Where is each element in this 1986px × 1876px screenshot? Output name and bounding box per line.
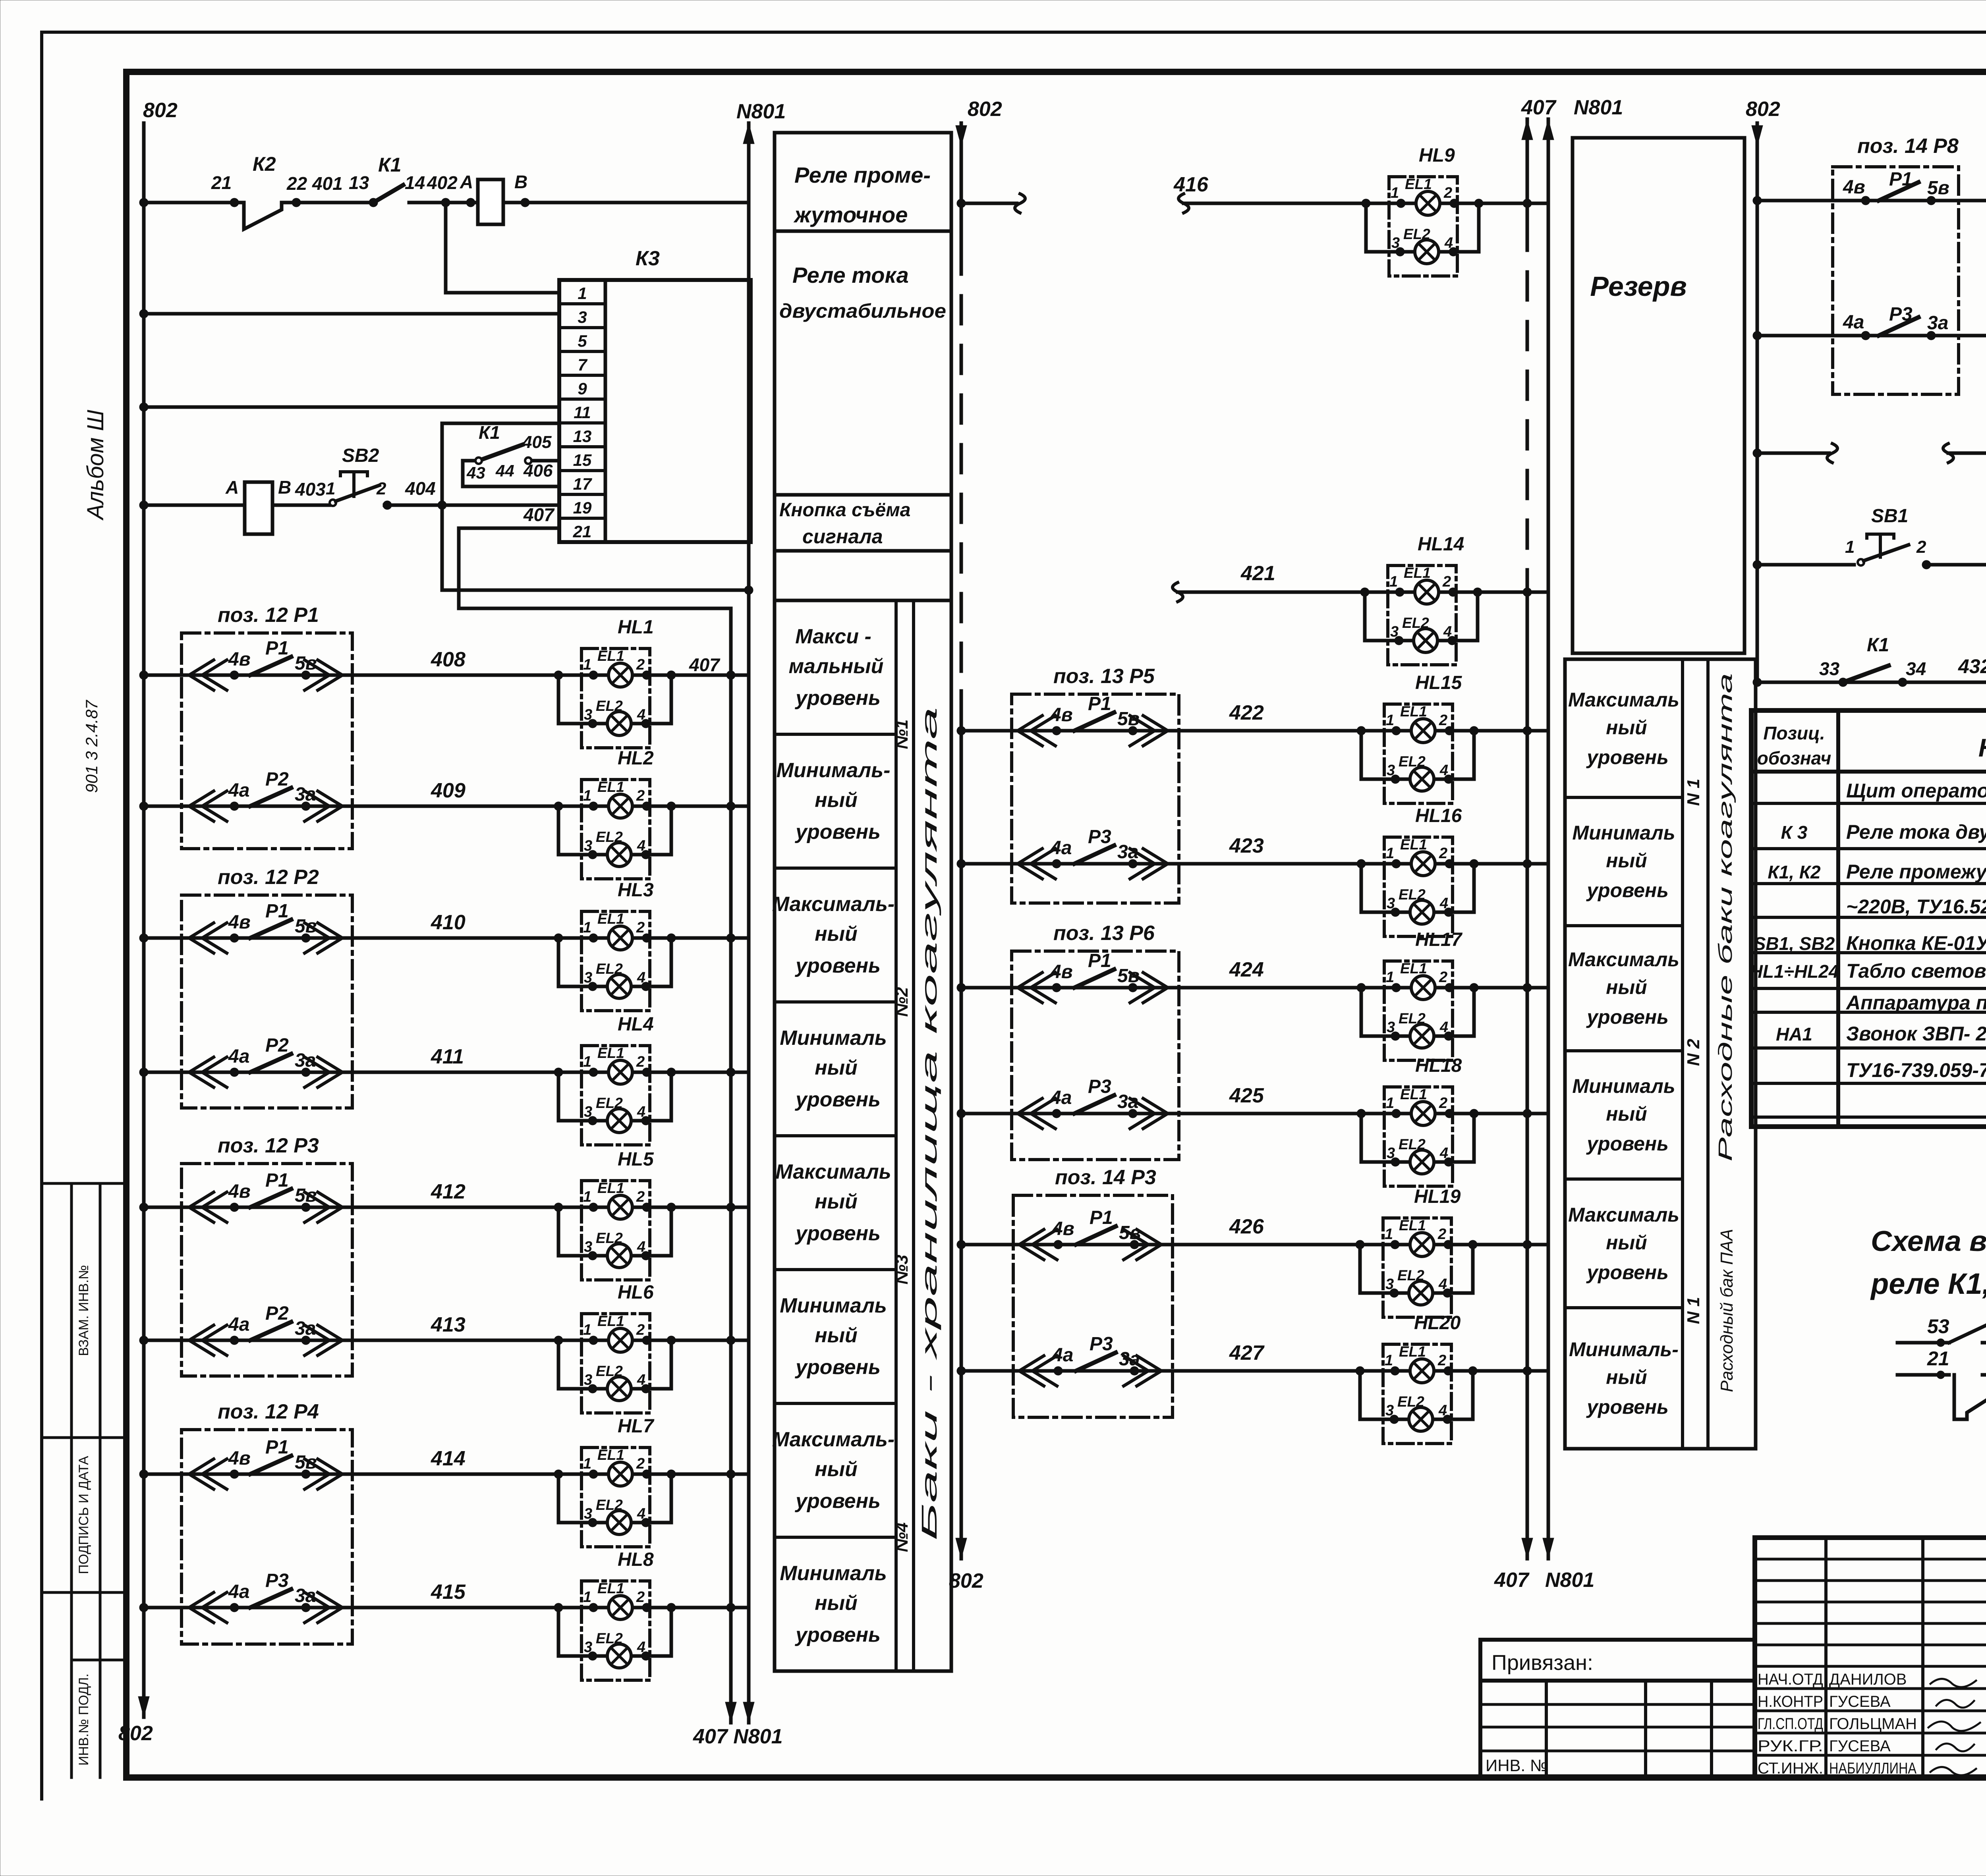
- svg-text:5в: 5в: [295, 1452, 317, 1473]
- svg-text:405: 405: [522, 432, 552, 452]
- svg-text:HL2: HL2: [618, 748, 654, 769]
- svg-text:поз. 14 Р8: поз. 14 Р8: [1857, 135, 1959, 158]
- svg-text:5в: 5в: [1117, 708, 1140, 730]
- svg-text:EL2: EL2: [1403, 226, 1430, 242]
- svg-text:4: 4: [637, 838, 645, 854]
- contact K1 13-14: [373, 185, 403, 203]
- lamp panel HL3: [582, 911, 650, 1011]
- svg-text:EL1: EL1: [1405, 176, 1432, 192]
- svg-text:4в: 4в: [228, 1181, 251, 1202]
- svg-text:2: 2: [636, 1189, 645, 1205]
- svg-text:43: 43: [466, 463, 485, 482]
- svg-text:ДАНИЛОВ: ДАНИЛОВ: [1829, 1671, 1907, 1688]
- svg-text:Реле проме-: Реле проме-: [794, 162, 931, 187]
- svg-text:К1: К1: [479, 422, 500, 443]
- svg-text:4: 4: [637, 1239, 645, 1255]
- svg-text:3: 3: [584, 706, 592, 723]
- svg-text:Минималь: Минималь: [1572, 1075, 1675, 1097]
- svg-text:425: 425: [1229, 1084, 1264, 1107]
- svg-text:EL2: EL2: [596, 1497, 623, 1513]
- relay contact Р1 on wire 414: [189, 1459, 214, 1489]
- svg-text:уровень: уровень: [794, 820, 881, 843]
- svg-text:А: А: [225, 477, 239, 498]
- contact group box поз. 12 Р1: [182, 633, 352, 849]
- svg-text:EL2: EL2: [596, 1630, 623, 1646]
- svg-text:427: 427: [1229, 1341, 1265, 1365]
- svg-text:426: 426: [1229, 1215, 1264, 1238]
- svg-text:21: 21: [1927, 1347, 1949, 1370]
- svg-text:415: 415: [431, 1581, 466, 1604]
- wire 415: [144, 1606, 582, 1610]
- svg-text:Максималь-: Максималь-: [772, 893, 894, 916]
- svg-text:802: 802: [118, 1722, 153, 1745]
- svg-text:Р2: Р2: [265, 769, 289, 790]
- lamp panel HL18: [1384, 1087, 1453, 1186]
- contact K1 43-44: [463, 459, 479, 463]
- wire 409: [144, 805, 582, 808]
- svg-text:уровень: уровень: [794, 1623, 881, 1646]
- svg-text:7: 7: [578, 355, 587, 374]
- wire 408: [144, 674, 582, 677]
- wire 431: [1757, 563, 1854, 567]
- svg-text:3а: 3а: [295, 784, 316, 805]
- svg-text:уровень: уровень: [794, 1356, 881, 1379]
- svg-text:HL15: HL15: [1415, 672, 1462, 693]
- svg-text:уровень: уровень: [1586, 1261, 1669, 1283]
- svg-text:Кнопка КЕ-01У3 исп. 2 ТУ16.526: Кнопка КЕ-01У3 исп. 2 ТУ16.526.407- 79: [1846, 932, 1986, 954]
- svg-text:Позиц.: Позиц.: [1763, 723, 1825, 743]
- svg-text:Н.КОНТР: Н.КОНТР: [1758, 1693, 1823, 1710]
- svg-text:3: 3: [1391, 235, 1400, 251]
- svg-text:EL2: EL2: [596, 961, 623, 977]
- svg-text:поз. 14 Р3: поз. 14 Р3: [1055, 1166, 1156, 1189]
- svg-text:Минималь: Минималь: [1572, 822, 1675, 844]
- wire 425: [961, 1112, 1474, 1116]
- svg-text:3: 3: [584, 969, 592, 986]
- outer paper border: [42, 31, 1986, 34]
- svg-text:уровень: уровень: [1586, 746, 1669, 768]
- column level labels (supply tanks): [1565, 659, 1756, 1449]
- svg-text:Р3: Р3: [1088, 1076, 1111, 1097]
- signatures: [1930, 1679, 1976, 1687]
- svg-text:1: 1: [1386, 1095, 1394, 1112]
- svg-text:Табло световое ТСБ-Ш-У3-01ТУ16: Табло световое ТСБ-Ш-У3-01ТУ16.535.424-7…: [1846, 960, 1986, 982]
- svg-text:Р1: Р1: [265, 901, 289, 922]
- svg-text:HL1: HL1: [618, 617, 654, 638]
- svg-text:К1, К2: К1, К2: [1768, 862, 1821, 882]
- svg-text:HL9: HL9: [1419, 145, 1455, 166]
- svg-text:15: 15: [573, 451, 592, 469]
- svg-text:403: 403: [295, 479, 326, 500]
- svg-text:2: 2: [1439, 845, 1447, 862]
- svg-text:432: 432: [1958, 655, 1986, 677]
- svg-text:№4: №4: [892, 1523, 912, 1552]
- svg-text:4: 4: [1444, 235, 1453, 251]
- svg-text:НА1: НА1: [1776, 1024, 1812, 1044]
- svg-text:4: 4: [1438, 1276, 1447, 1293]
- svg-text:К2: К2: [253, 153, 276, 175]
- svg-text:В: В: [514, 172, 527, 192]
- svg-text:ИНВ. №: ИНВ. №: [1486, 1756, 1548, 1775]
- svg-text:Реле промежуточное РПУ2-0642о: Реле промежуточное РПУ2-0642о У3Б: [1846, 861, 1986, 883]
- svg-text:Максималь-: Максималь-: [772, 1428, 894, 1451]
- svg-text:Р3: Р3: [265, 1570, 289, 1591]
- svg-text:3: 3: [1385, 1276, 1394, 1293]
- relay contact Р1 on wire 412: [189, 1192, 214, 1222]
- svg-text:404: 404: [405, 478, 436, 499]
- svg-text:2: 2: [1437, 1226, 1446, 1243]
- svg-text:Расходный бак ПАА: Расходный бак ПАА: [1717, 1229, 1737, 1392]
- wire 413: [144, 1339, 582, 1342]
- svg-text:Наименование: Наименование: [1978, 733, 1986, 762]
- svg-text:3: 3: [1387, 895, 1395, 912]
- svg-text:N801: N801: [736, 100, 786, 123]
- svg-text:РУК.ГР.: РУК.ГР.: [1758, 1737, 1823, 1755]
- node 404 branch: [438, 501, 446, 510]
- svg-text:EL1: EL1: [1400, 960, 1427, 977]
- svg-text:11: 11: [574, 403, 591, 422]
- svg-text:802: 802: [968, 98, 1002, 121]
- svg-text:К1: К1: [378, 154, 402, 176]
- svg-text:Максималь: Максималь: [1568, 1204, 1679, 1226]
- lamp panel HL9: [1389, 177, 1457, 276]
- svg-text:мальный: мальный: [789, 655, 884, 678]
- svg-text:1: 1: [583, 1322, 591, 1338]
- svg-text:уровень: уровень: [1586, 1133, 1669, 1155]
- svg-text:4: 4: [1439, 1019, 1448, 1036]
- wire 430: [1757, 452, 1829, 455]
- svg-text:ВЗАМ. ИНВ.№: ВЗАМ. ИНВ.№: [76, 1265, 91, 1356]
- svg-text:уровень: уровень: [794, 1088, 881, 1111]
- lamp panel HL1: [582, 648, 650, 748]
- svg-text:Схема выводов контактов и обм: Схема выводов контактов и обмоток: [1871, 1226, 1986, 1257]
- svg-text:2: 2: [1439, 969, 1447, 986]
- svg-text:1: 1: [583, 1054, 591, 1070]
- svg-text:EL2: EL2: [596, 1095, 623, 1111]
- svg-text:411: 411: [431, 1045, 464, 1068]
- svg-text:4в: 4в: [1050, 961, 1073, 982]
- svg-text:ный: ный: [1606, 716, 1647, 739]
- svg-text:Максималь: Максималь: [1568, 948, 1679, 971]
- svg-text:34: 34: [1906, 658, 1926, 679]
- svg-text:ный: ный: [815, 1190, 858, 1213]
- svg-text:Кнопка съёма: Кнопка съёма: [779, 500, 910, 521]
- lamp panel HL14: [1388, 566, 1456, 665]
- wire 429: [1757, 334, 1986, 338]
- relay contact Р1 wire 426: [1019, 1229, 1044, 1260]
- svg-text:ный: ный: [1606, 1103, 1647, 1125]
- svg-text:1: 1: [1385, 1352, 1393, 1369]
- svg-text:HL20: HL20: [1414, 1312, 1461, 1334]
- svg-text:уровень: уровень: [794, 1222, 881, 1245]
- coil K1: [478, 179, 503, 224]
- svg-text:HL16: HL16: [1415, 805, 1462, 826]
- svg-text:N801: N801: [1574, 96, 1623, 119]
- svg-text:5: 5: [578, 332, 587, 350]
- contact group box поз. 13 Р6: [1012, 951, 1179, 1160]
- svg-text:EL1: EL1: [1399, 1343, 1426, 1360]
- svg-text:EL2: EL2: [1399, 886, 1426, 903]
- svg-text:53: 53: [1927, 1315, 1949, 1338]
- svg-text:ный: ный: [1606, 849, 1647, 872]
- svg-text:2: 2: [636, 1054, 645, 1070]
- svg-text:HL3: HL3: [618, 880, 654, 901]
- svg-text:поз. 13 Р6: поз. 13 Р6: [1053, 922, 1155, 945]
- svg-text:поз. 12 Р1: поз. 12 Р1: [218, 604, 319, 627]
- svg-text:412: 412: [431, 1180, 466, 1203]
- svg-text:Р1: Р1: [265, 638, 289, 659]
- svg-text:К 3: К 3: [1781, 822, 1808, 843]
- wire rung to K3 pin11: [144, 405, 559, 409]
- contact group box поз.14 Р8: [1833, 167, 1959, 394]
- column level labels (storage tanks): [775, 600, 951, 1671]
- lamp panel HL19: [1383, 1218, 1451, 1317]
- svg-text:407 N801: 407 N801: [693, 1725, 783, 1748]
- svg-text:НАЧ.ОТД: НАЧ.ОТД: [1758, 1671, 1823, 1688]
- svg-text:33: 33: [1819, 658, 1840, 679]
- svg-text:ный: ный: [815, 1592, 858, 1615]
- svg-text:реле К1, К2,: реле К1, К2,: [1870, 1267, 1986, 1300]
- wire 416: [1178, 194, 1189, 213]
- wire 421: [1173, 583, 1183, 602]
- svg-text:3: 3: [584, 1372, 592, 1388]
- svg-text:424: 424: [1229, 958, 1264, 981]
- svg-text:2: 2: [636, 787, 645, 804]
- svg-text:4: 4: [1439, 762, 1448, 779]
- wire 414: [144, 1473, 582, 1476]
- svg-text:2: 2: [1439, 1095, 1447, 1112]
- svg-text:EL1: EL1: [597, 1580, 624, 1596]
- left stamp strip dividers: [70, 1183, 73, 1778]
- svg-text:423: 423: [1229, 834, 1264, 857]
- svg-text:4: 4: [1443, 623, 1452, 640]
- pinout contact 53-54: [1897, 1341, 1949, 1345]
- svg-text:уровень: уровень: [1586, 879, 1669, 901]
- svg-text:Минималь: Минималь: [780, 1562, 887, 1585]
- svg-text:EL1: EL1: [597, 1447, 624, 1463]
- svg-text:1: 1: [583, 656, 591, 673]
- svg-text:EL2: EL2: [596, 1363, 623, 1379]
- svg-text:N 2: N 2: [1684, 1038, 1703, 1066]
- svg-text:407: 407: [1494, 1569, 1530, 1592]
- svg-text:1: 1: [1389, 573, 1398, 590]
- svg-text:408: 408: [431, 648, 466, 671]
- svg-text:~220В, ТУ16.523.331- 78.: ~220В, ТУ16.523.331- 78.: [1846, 896, 1986, 918]
- svg-text:422: 422: [1229, 701, 1264, 724]
- svg-text:1: 1: [1386, 845, 1394, 862]
- svg-text:HL14: HL14: [1418, 534, 1464, 555]
- svg-text:Р1: Р1: [265, 1170, 289, 1191]
- svg-text:2: 2: [636, 656, 645, 673]
- svg-text:двустабильное: двустабильное: [779, 300, 946, 322]
- svg-text:4: 4: [637, 1104, 645, 1120]
- svg-text:поз. 12 Р4: поз. 12 Р4: [218, 1400, 319, 1423]
- svg-text:1: 1: [583, 787, 591, 804]
- svg-text:EL2: EL2: [1402, 615, 1429, 631]
- svg-text:3: 3: [1387, 1145, 1395, 1162]
- svg-text:EL1: EL1: [597, 911, 624, 927]
- wire 423: [961, 862, 1474, 866]
- bus N801 left: [747, 123, 751, 1723]
- relay contact Р3 wire 423: [1018, 849, 1042, 879]
- svg-text:поз. 12 Р2: поз. 12 Р2: [218, 866, 319, 889]
- svg-text:4: 4: [1438, 1402, 1447, 1419]
- svg-text:3а: 3а: [1927, 313, 1948, 334]
- svg-text:13: 13: [349, 172, 369, 193]
- relay contact Р2 on wire 409: [189, 791, 214, 821]
- svg-text:обознач: обознач: [1757, 748, 1831, 768]
- svg-text:N801: N801: [1545, 1569, 1594, 1592]
- column relay descriptions: [775, 133, 951, 600]
- svg-text:3а: 3а: [295, 1050, 316, 1071]
- svg-text:3: 3: [584, 1505, 592, 1522]
- svg-text:4а: 4а: [228, 1314, 249, 1335]
- wire 406 to K3 pin17: [463, 485, 559, 488]
- svg-text:EL2: EL2: [596, 1230, 623, 1246]
- wire 407 from K3 pin21: [459, 528, 731, 608]
- svg-text:1: 1: [583, 919, 591, 936]
- svg-text:EL1: EL1: [1399, 1217, 1426, 1233]
- privyazan box: [1480, 1640, 1755, 1681]
- svg-text:421: 421: [1240, 562, 1275, 585]
- svg-text:1: 1: [1386, 969, 1394, 986]
- svg-text:HL18: HL18: [1415, 1055, 1462, 1076]
- lamp panel HL20: [1383, 1344, 1451, 1444]
- wire to N801 lower link: [442, 505, 749, 590]
- svg-text:3: 3: [584, 1239, 592, 1255]
- svg-text:4в: 4в: [228, 912, 251, 933]
- svg-text:EL1: EL1: [597, 1313, 624, 1329]
- svg-text:ГЛ.СП.ОТД: ГЛ.СП.ОТД: [1758, 1715, 1823, 1733]
- svg-text:EL1: EL1: [597, 1180, 624, 1196]
- component table: [1751, 710, 1986, 1127]
- wire 412: [144, 1206, 582, 1209]
- contact group box поз. 13 Р5: [1012, 694, 1179, 903]
- svg-text:4: 4: [637, 1505, 645, 1522]
- svg-text:HL19: HL19: [1414, 1186, 1461, 1207]
- svg-text:ИНВ.№ ПОДЛ.: ИНВ.№ ПОДЛ.: [76, 1673, 91, 1766]
- svg-text:EL1: EL1: [1400, 1086, 1427, 1102]
- contact group box поз. 12 Р4: [182, 1430, 352, 1644]
- wire 424: [961, 986, 1474, 990]
- svg-text:1: 1: [583, 1589, 591, 1606]
- svg-text:уровень: уровень: [1586, 1396, 1669, 1418]
- svg-text:1: 1: [326, 479, 335, 498]
- svg-text:Реле тока: Реле тока: [792, 262, 909, 288]
- svg-text:Баки - хранилища коагулянта: Баки - хранилища коагулянта: [918, 707, 941, 1541]
- relay contact Р3 right box: [1861, 331, 1870, 340]
- svg-text:HL17: HL17: [1415, 929, 1463, 950]
- svg-text:3: 3: [584, 1104, 592, 1120]
- svg-text:5в: 5в: [295, 653, 317, 674]
- svg-text:N 1: N 1: [1684, 779, 1703, 806]
- wire rung 403-404: [144, 504, 245, 507]
- svg-text:Реле тока двустабильное РТД 1: Реле тока двустабильное РТД 12~220В: [1846, 821, 1986, 843]
- svg-text:4а: 4а: [1052, 1345, 1073, 1366]
- lamp panel HL2: [582, 780, 650, 879]
- svg-text:N 1: N 1: [1684, 1297, 1703, 1324]
- lamp panel HL16: [1384, 837, 1453, 936]
- svg-text:Р2: Р2: [265, 1303, 289, 1324]
- svg-text:EL2: EL2: [1399, 1136, 1426, 1152]
- wire 427: [961, 1369, 1473, 1373]
- svg-text:HL8: HL8: [618, 1549, 654, 1570]
- svg-text:4в: 4в: [1050, 704, 1073, 726]
- svg-text:Резерв: Резерв: [1590, 271, 1687, 302]
- svg-text:3: 3: [584, 838, 592, 854]
- svg-text:5в: 5в: [1927, 178, 1949, 199]
- relay contact Р2 on wire 411: [189, 1057, 214, 1087]
- svg-text:ный: ный: [1606, 1366, 1647, 1388]
- relay contact Р3 wire 425: [1018, 1098, 1042, 1129]
- relay contact Р1 wire 424: [1018, 973, 1042, 1003]
- svg-text:Р1: Р1: [1088, 950, 1111, 971]
- svg-text:4а: 4а: [1843, 312, 1864, 333]
- wire 428: [1757, 199, 1986, 203]
- svg-text:К1: К1: [1867, 635, 1889, 656]
- svg-text:4: 4: [1439, 895, 1448, 912]
- svg-text:3: 3: [1387, 1019, 1395, 1036]
- svg-text:44: 44: [495, 461, 514, 480]
- svg-text:4: 4: [637, 706, 645, 723]
- svg-text:Альбом Ш: Альбом Ш: [83, 409, 108, 521]
- svg-text:1: 1: [1386, 712, 1394, 729]
- svg-text:ный: ный: [815, 923, 858, 946]
- wire 432 with contact K1 33-34: [1757, 681, 1986, 684]
- svg-text:5в: 5в: [1117, 965, 1140, 986]
- svg-text:2: 2: [636, 919, 645, 936]
- svg-text:ный: ный: [815, 1056, 858, 1079]
- svg-text:4: 4: [637, 969, 645, 986]
- svg-text:EL2: EL2: [1397, 1267, 1424, 1283]
- relay contact Р3 on wire 415: [189, 1592, 214, 1623]
- svg-text:19: 19: [573, 498, 592, 517]
- wire 410: [144, 936, 582, 940]
- terminal block K3: [559, 280, 751, 542]
- svg-text:Максималь: Максималь: [775, 1160, 891, 1183]
- lamp panel HL6: [582, 1314, 650, 1413]
- svg-text:3а: 3а: [1117, 841, 1138, 863]
- svg-text:3: 3: [1390, 623, 1399, 640]
- svg-text:2: 2: [1439, 712, 1447, 729]
- lamp panel HL15: [1384, 704, 1453, 803]
- svg-text:407: 407: [689, 654, 721, 675]
- svg-text:Р1: Р1: [1889, 169, 1913, 190]
- svg-text:ный: ный: [1606, 1231, 1647, 1254]
- svg-text:4в: 4в: [228, 649, 251, 670]
- svg-text:№1: №1: [892, 720, 912, 749]
- svg-text:802: 802: [949, 1569, 983, 1592]
- svg-text:ный: ный: [815, 1458, 858, 1481]
- relay contact Р1 on wire 408: [189, 660, 214, 690]
- svg-text:5в: 5в: [295, 916, 317, 937]
- svg-text:ный: ный: [1606, 976, 1647, 998]
- contact group box поз. 12 Р3: [182, 1164, 352, 1376]
- relay contact Р2 on wire 413: [189, 1325, 214, 1355]
- svg-text:406: 406: [523, 461, 553, 481]
- svg-text:Расходные баки коагулянта: Расходные баки коагулянта: [1715, 673, 1736, 1162]
- svg-text:EL1: EL1: [597, 779, 624, 795]
- svg-text:EL1: EL1: [597, 1045, 624, 1061]
- svg-text:EL2: EL2: [1397, 1393, 1424, 1410]
- svg-text:EL1: EL1: [1400, 836, 1427, 853]
- contact group box поз. 12 Р2: [182, 895, 352, 1108]
- relay contact Р1 right box: [1861, 196, 1870, 205]
- svg-text:4в: 4в: [228, 1448, 251, 1469]
- svg-text:Минималь-: Минималь-: [777, 759, 891, 782]
- svg-text:3а: 3а: [1119, 1349, 1140, 1370]
- svg-text:4: 4: [637, 1639, 645, 1656]
